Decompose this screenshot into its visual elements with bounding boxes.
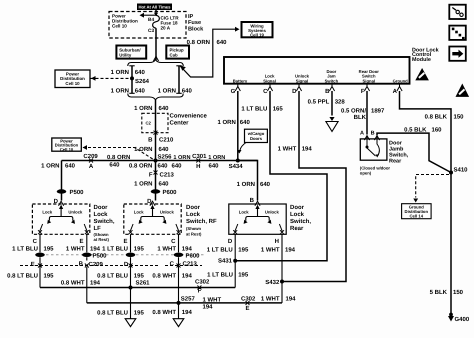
svg-text:Center: Center [170, 119, 190, 126]
svg-text:1 WHT: 1 WHT [66, 246, 85, 253]
svg-text:Door: Door [186, 204, 201, 211]
svg-text:Battery: Battery [233, 78, 248, 83]
svg-text:Signal: Signal [363, 78, 376, 83]
svg-text:S256: S256 [158, 153, 173, 160]
svg-text:D: D [124, 261, 129, 268]
svg-text:at Rest): at Rest) [186, 231, 202, 236]
svg-text:Utility: Utility [119, 53, 132, 58]
svg-text:195: 195 [238, 271, 249, 278]
svg-text:640: 640 [158, 163, 169, 170]
svg-text:150: 150 [453, 289, 464, 296]
svg-text:0.8 ORN: 0.8 ORN [187, 39, 210, 46]
svg-text:Cab: Cab [170, 53, 178, 58]
svg-text:Door: Door [94, 204, 109, 211]
svg-text:640: 640 [159, 146, 170, 153]
svg-text:640: 640 [260, 181, 271, 188]
svg-text:Signal: Signal [296, 78, 309, 83]
svg-text:165: 165 [273, 106, 284, 113]
svg-text:0.8 LT BLU: 0.8 LT BLU [97, 272, 128, 279]
svg-text:Lock: Lock [134, 210, 144, 215]
svg-text:Cell 10: Cell 10 [65, 81, 80, 86]
svg-text:B: B [250, 197, 255, 204]
svg-text:open): open) [360, 170, 372, 175]
svg-text:C2: C2 [146, 121, 152, 126]
svg-text:S264: S264 [135, 78, 150, 85]
svg-text:5 BLK: 5 BLK [430, 289, 448, 296]
svg-text:640: 640 [109, 161, 120, 168]
svg-text:194: 194 [285, 247, 296, 254]
svg-text:195: 195 [44, 246, 55, 253]
svg-text:B: B [325, 88, 330, 95]
svg-text:C302: C302 [241, 295, 256, 302]
svg-text:P600: P600 [186, 253, 201, 260]
svg-text:Unlock: Unlock [68, 210, 83, 215]
svg-text:G: G [231, 88, 236, 95]
svg-text:1 ORN: 1 ORN [111, 69, 129, 76]
svg-text:C213: C213 [183, 260, 198, 267]
svg-text:IP: IP [188, 14, 194, 20]
svg-text:P600: P600 [163, 189, 178, 196]
svg-text:1 ORN: 1 ORN [208, 155, 225, 161]
svg-text:1897: 1897 [371, 107, 385, 114]
svg-text:1 LT BLU: 1 LT BLU [241, 106, 267, 113]
svg-text:194: 194 [302, 146, 313, 153]
svg-text:1 LT BLU: 1 LT BLU [207, 247, 233, 254]
svg-text:C209: C209 [83, 153, 98, 160]
svg-text:C302: C302 [195, 278, 210, 285]
svg-text:S257: S257 [181, 295, 196, 302]
svg-text:S434: S434 [229, 163, 244, 170]
svg-text:F: F [361, 88, 365, 95]
svg-text:640: 640 [240, 119, 251, 126]
svg-text:0.8 ORN: 0.8 ORN [129, 163, 152, 170]
svg-text:195: 195 [134, 246, 145, 253]
svg-text:B: B [79, 261, 84, 268]
svg-text:Module: Module [412, 57, 431, 63]
svg-text:328: 328 [335, 98, 346, 105]
svg-text:G400: G400 [455, 316, 470, 323]
svg-text:1 ORN: 1 ORN [217, 119, 235, 126]
svg-text:Lock: Lock [94, 211, 109, 218]
svg-text:Lock: Lock [186, 211, 201, 218]
svg-text:Lock: Lock [42, 210, 52, 215]
svg-text:A: A [89, 163, 94, 170]
svg-text:0.8 WHT: 0.8 WHT [152, 309, 176, 316]
svg-text:0.8 LT BLU: 0.8 LT BLU [7, 272, 38, 279]
svg-text:1 WHT: 1 WHT [261, 247, 280, 254]
svg-text:0.8 LT BLU: 0.8 LT BLU [97, 309, 128, 316]
svg-text:195: 195 [44, 272, 55, 279]
svg-text:1 ORN: 1 ORN [173, 155, 190, 161]
svg-text:B: B [371, 131, 375, 137]
svg-text:640: 640 [65, 163, 76, 170]
svg-text:Switch: Switch [325, 78, 339, 83]
svg-text:C: C [171, 238, 176, 245]
svg-text:Fuse: Fuse [188, 20, 201, 26]
svg-text:Rear: Rear [389, 158, 402, 164]
svg-text:C209: C209 [89, 261, 104, 268]
svg-text:194: 194 [182, 309, 193, 316]
svg-text:0.8 ORN: 0.8 ORN [107, 154, 130, 161]
svg-text:1 WHT: 1 WHT [157, 246, 176, 253]
svg-text:Switch,: Switch, [290, 218, 311, 225]
svg-text:F: F [149, 171, 153, 178]
svg-text:640: 640 [217, 39, 228, 46]
svg-text:S261: S261 [136, 280, 151, 287]
svg-text:1 ORN: 1 ORN [134, 146, 152, 153]
svg-text:Door: Door [290, 204, 305, 211]
svg-text:Lock: Lock [290, 211, 305, 218]
svg-text:194: 194 [90, 279, 101, 286]
svg-text:F: F [198, 288, 202, 295]
svg-text:1 WHT: 1 WHT [203, 296, 222, 303]
svg-text:0.5 ORN/: 0.5 ORN/ [341, 107, 366, 114]
svg-text:1 WHT: 1 WHT [278, 146, 297, 153]
svg-text:1 LT BLU: 1 LT BLU [102, 246, 128, 253]
svg-text:1 ORN: 1 ORN [237, 181, 255, 188]
svg-text:S410: S410 [454, 167, 469, 174]
svg-text:0.5 BLK: 0.5 BLK [404, 126, 427, 133]
svg-text:640: 640 [209, 163, 220, 170]
svg-text:640: 640 [159, 105, 170, 112]
svg-text:0.8 WHT: 0.8 WHT [152, 272, 176, 279]
svg-text:at Rest): at Rest) [94, 237, 110, 242]
svg-text:C3: C3 [148, 28, 154, 34]
svg-text:Switch,: Switch, [94, 218, 115, 225]
svg-text:C213: C213 [160, 171, 175, 178]
svg-text:E: E [245, 305, 249, 312]
svg-text:1 LT BLU: 1 LT BLU [207, 271, 233, 278]
svg-text:640: 640 [159, 180, 170, 187]
svg-text:Cell 10: Cell 10 [60, 147, 74, 152]
svg-text:1 ORN: 1 ORN [41, 163, 59, 170]
svg-text:C210: C210 [159, 136, 174, 143]
svg-text:S431: S431 [218, 258, 233, 265]
svg-text:1 ORN: 1 ORN [111, 88, 129, 95]
svg-text:C: C [170, 260, 175, 267]
svg-text:1 LT BLU: 1 LT BLU [12, 246, 38, 253]
svg-text:B: B [148, 136, 153, 143]
svg-text:Lock: Lock [239, 210, 249, 215]
svg-text:1 ORN: 1 ORN [158, 88, 176, 95]
svg-text:Cell 14: Cell 14 [410, 213, 424, 218]
svg-text:E: E [31, 261, 35, 268]
svg-text:Unlock: Unlock [265, 210, 280, 215]
svg-text:Rear: Rear [290, 225, 304, 232]
svg-text:D: D [228, 238, 233, 245]
svg-text:Block: Block [188, 26, 204, 33]
svg-text:BLK: BLK [354, 114, 367, 121]
svg-text:A: A [393, 88, 398, 95]
svg-text:H: H [275, 238, 279, 245]
svg-text:Cell 19: Cell 19 [250, 33, 264, 38]
svg-text:Doors: Doors [250, 136, 263, 141]
svg-text:160: 160 [432, 126, 443, 133]
svg-text:194: 194 [286, 295, 297, 302]
svg-text:Unlock: Unlock [160, 210, 175, 215]
svg-text:Cell 10: Cell 10 [112, 24, 127, 29]
svg-text:194: 194 [90, 246, 101, 253]
svg-text:C: C [263, 88, 268, 95]
svg-text:A: A [360, 131, 364, 137]
svg-text:E: E [79, 238, 83, 245]
svg-text:P500: P500 [93, 253, 108, 260]
svg-text:D: D [292, 88, 297, 95]
svg-text:E: E [123, 238, 127, 245]
svg-text:194: 194 [182, 272, 193, 279]
svg-text:150: 150 [454, 113, 465, 120]
svg-text:(Shown: (Shown [186, 226, 202, 231]
svg-text:1 ORN: 1 ORN [134, 105, 152, 112]
svg-text:194: 194 [182, 246, 193, 253]
svg-text:Convenience: Convenience [170, 112, 208, 119]
svg-text:1 ORN: 1 ORN [134, 180, 152, 187]
svg-text:S432: S432 [265, 279, 280, 286]
svg-text:640: 640 [135, 69, 146, 76]
svg-text:P500: P500 [70, 189, 85, 196]
svg-text:640: 640 [172, 163, 183, 170]
svg-text:0.5 PPL: 0.5 PPL [308, 98, 330, 105]
svg-text:Hot At All Times: Hot At All Times [139, 5, 172, 10]
svg-text:Signal: Signal [263, 78, 276, 83]
svg-text:0.8 BLK: 0.8 BLK [425, 113, 448, 120]
svg-text:C301: C301 [192, 153, 207, 160]
svg-text:C: C [33, 238, 38, 245]
svg-text:Switch, RF: Switch, RF [186, 218, 217, 225]
svg-text:194: 194 [203, 304, 214, 311]
svg-text:0.8 WHT: 0.8 WHT [61, 279, 85, 286]
svg-text:20 A: 20 A [161, 26, 171, 31]
svg-text:640: 640 [135, 88, 146, 95]
svg-text:195: 195 [134, 272, 145, 279]
svg-text:195: 195 [238, 247, 249, 254]
svg-text:195: 195 [134, 309, 145, 316]
svg-text:Ground: Ground [393, 78, 409, 83]
svg-text:1 WHT: 1 WHT [261, 295, 280, 302]
svg-text:H: H [196, 163, 200, 170]
